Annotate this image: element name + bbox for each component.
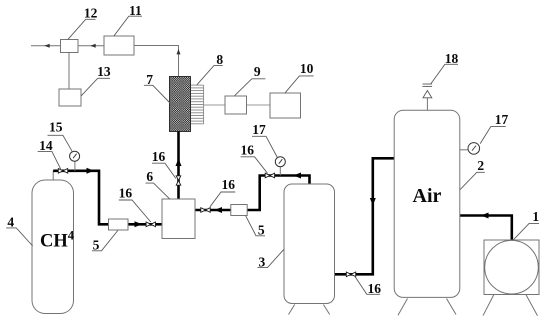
svg-text:18: 18: [445, 51, 459, 66]
svg-text:7: 7: [146, 72, 153, 87]
svg-text:16: 16: [152, 149, 166, 164]
svg-text:16: 16: [119, 185, 133, 200]
svg-text:Air: Air: [413, 185, 442, 207]
svg-text:12: 12: [84, 6, 98, 21]
svg-text:2: 2: [477, 158, 484, 173]
svg-text:3: 3: [259, 254, 266, 269]
svg-text:5: 5: [258, 223, 265, 238]
svg-text:15: 15: [49, 119, 63, 134]
svg-text:6: 6: [146, 169, 153, 184]
svg-text:16: 16: [241, 142, 255, 157]
svg-text:5: 5: [93, 237, 100, 252]
svg-text:11: 11: [129, 3, 142, 18]
svg-text:1: 1: [532, 209, 539, 224]
svg-text:4: 4: [7, 215, 14, 230]
svg-text:16: 16: [368, 281, 382, 296]
svg-text:17: 17: [495, 112, 509, 127]
svg-text:10: 10: [300, 61, 314, 76]
svg-text:16: 16: [221, 177, 235, 192]
svg-text:9: 9: [254, 64, 261, 79]
svg-text:14: 14: [39, 138, 53, 153]
svg-text:13: 13: [97, 64, 111, 79]
svg-text:17: 17: [252, 122, 266, 137]
svg-text:8: 8: [216, 52, 223, 67]
